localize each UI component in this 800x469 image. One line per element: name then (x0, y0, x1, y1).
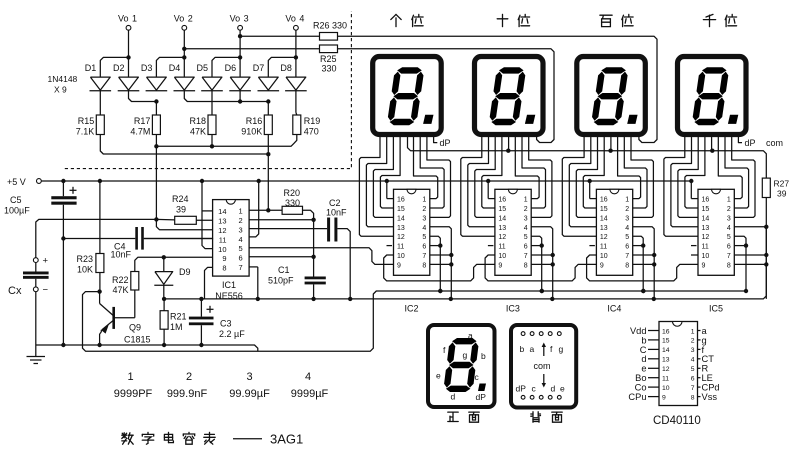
resistor R17 (152, 115, 160, 135)
node +5V IC3 junction (486, 179, 490, 183)
svg-text:−: − (43, 285, 49, 296)
svg-text:10: 10 (498, 253, 506, 260)
svg-text:47K: 47K (190, 127, 206, 137)
wire Q9 collector to counter reset rail (83, 291, 441, 351)
display DS4 com pin (711, 134, 713, 151)
svg-text:4: 4 (239, 235, 243, 244)
svg-text:2: 2 (239, 216, 243, 225)
svg-text:11: 11 (219, 235, 227, 244)
IC3 pin 11 stub (488, 245, 494, 247)
legend com arrows (543, 344, 545, 356)
wire Vo2 vertical (183, 30, 185, 57)
node R24 left junction (154, 217, 158, 221)
node ground rail junction (97, 343, 101, 347)
svg-text:8: 8 (691, 394, 695, 401)
wire com line (408, 134, 767, 178)
svg-text:1: 1 (127, 371, 133, 383)
svg-text:9999µF: 9999µF (291, 388, 329, 400)
svg-text:5: 5 (524, 234, 528, 241)
svg-text:D3: D3 (141, 63, 153, 73)
svg-text:IC5: IC5 (709, 304, 723, 314)
svg-text:910K: 910K (241, 127, 262, 137)
svg-text:+: + (43, 256, 49, 267)
diode D7 (258, 77, 278, 90)
svg-text:10nF: 10nF (111, 250, 132, 260)
node ground bus junction (449, 297, 453, 301)
svg-text:99.99µF: 99.99µF (229, 388, 270, 400)
diode D4 (174, 77, 194, 90)
wire IC2 Co to IC3 CPu (384, 255, 495, 281)
svg-text:R22: R22 (112, 275, 129, 285)
svg-text:13: 13 (702, 225, 710, 232)
svg-text:NE556: NE556 (215, 291, 243, 301)
svg-text:dP: dP (516, 384, 527, 394)
display DS4 segment pin wire (685, 134, 705, 208)
svg-text:dP: dP (440, 138, 451, 148)
wire Cx- to ground (35, 292, 37, 345)
svg-text:d: d (451, 392, 456, 402)
svg-text:4: 4 (625, 225, 629, 232)
svg-text:7: 7 (727, 253, 731, 260)
resistor R15 (96, 115, 104, 135)
svg-text:3AG1: 3AG1 (270, 432, 303, 447)
svg-text:d: d (641, 354, 646, 364)
node D9 top junction (162, 255, 166, 259)
capacitor C5 (62, 181, 64, 196)
svg-text:5: 5 (422, 234, 426, 241)
svg-text:14: 14 (218, 207, 226, 216)
svg-text:R21: R21 (170, 312, 187, 322)
node IC5 pin4 junction (764, 225, 768, 229)
svg-text:CPu: CPu (628, 392, 646, 402)
resistor R23 (99, 181, 101, 254)
wire C4 to IC1 pin11 (144, 238, 213, 240)
svg-text:8: 8 (524, 262, 528, 269)
wire IC1 pin6 line (249, 256, 314, 258)
display DS4 digit 8 (702, 67, 727, 73)
wire R17 bottom column (155, 135, 157, 220)
display DS2 segment pin wire (461, 134, 495, 236)
node IC5 pin7 junction (764, 253, 768, 257)
svg-text:15: 15 (397, 206, 405, 213)
node ground rail junction (61, 343, 65, 347)
ground symbol (35, 345, 37, 357)
svg-text:1N4148: 1N4148 (48, 74, 78, 84)
svg-text:330: 330 (285, 198, 300, 208)
svg-text:9: 9 (600, 262, 604, 269)
svg-text:2.2 µF: 2.2 µF (219, 329, 245, 339)
svg-text:Vo: Vo (174, 14, 185, 24)
label ge-wei (ones) (391, 14, 396, 19)
svg-text:47K: 47K (112, 285, 128, 295)
display DS4 segment pin wire (671, 134, 698, 227)
wire IC5 pins 4/7/8 column (734, 227, 766, 299)
display DS1 segment pin wire (373, 134, 393, 217)
svg-text:R23: R23 (76, 254, 93, 264)
svg-text:4: 4 (691, 357, 695, 364)
wire R17 to IC1 pin12 (156, 219, 212, 229)
node ground rail junction (162, 343, 166, 347)
resistor R26 (320, 33, 338, 41)
svg-text:D9: D9 (179, 267, 191, 277)
node pin2 column junction (311, 218, 315, 222)
svg-text:Q9: Q9 (129, 323, 141, 333)
wire IC5 pins 5/6 column (734, 236, 746, 291)
svg-text:10nF: 10nF (326, 208, 347, 218)
svg-text:15: 15 (498, 206, 506, 213)
svg-text:5: 5 (727, 234, 731, 241)
legend back-view bottom holes (521, 395, 525, 399)
wire signal ground bus (164, 200, 766, 299)
svg-text:9: 9 (662, 394, 666, 401)
wire IC1 pin2 line (249, 219, 314, 221)
node R18 bottom junction (210, 144, 214, 148)
svg-text:12: 12 (662, 366, 670, 373)
svg-text:12: 12 (600, 234, 608, 241)
display DS3 segment pin wire (583, 134, 604, 208)
svg-text:2: 2 (691, 338, 695, 345)
diode D1 (90, 77, 110, 90)
display DS4 segment pin wire (664, 134, 698, 236)
svg-text:g: g (559, 344, 564, 354)
node +5V IC4 junction (588, 179, 592, 183)
wire IC3 Co to IC4 CPu (485, 255, 596, 281)
dashed boundary of counting/display section (65, 11, 352, 169)
wire D5 cathode to R18 (211, 91, 213, 115)
svg-text:5: 5 (625, 234, 629, 241)
svg-text:6: 6 (727, 244, 731, 251)
svg-text:IC3: IC3 (506, 304, 520, 314)
svg-text:13: 13 (600, 225, 608, 232)
display DS4 body (678, 57, 747, 135)
display DS4 segment pin wire right (718, 134, 742, 198)
svg-text:13: 13 (662, 357, 670, 364)
node +5V rail junction (257, 179, 261, 183)
display DS3 com pin (610, 134, 612, 151)
resistor R24 (175, 216, 197, 224)
svg-text:4: 4 (422, 225, 426, 232)
svg-text:4: 4 (299, 14, 304, 24)
node IC5 pin8 junction (764, 262, 768, 266)
wire R24 to IC1 pin13 (196, 219, 212, 221)
svg-text:11: 11 (397, 244, 404, 251)
node IC3 pin8 junction (551, 262, 555, 266)
svg-text:3: 3 (422, 215, 426, 222)
node D7 link junction (266, 99, 270, 103)
svg-text:510pF: 510pF (268, 276, 294, 286)
wire +5V rail (41, 180, 692, 182)
node Vo1/D1/D2 junction (126, 55, 130, 59)
svg-text:4.7M: 4.7M (130, 127, 150, 137)
svg-text:6: 6 (691, 376, 695, 383)
counter IC2 CD40110 body (394, 189, 430, 275)
capacitor C3 (200, 299, 202, 317)
svg-text:2: 2 (625, 206, 629, 213)
display DS3 digit 8 (601, 67, 626, 73)
capacitor C1 (305, 277, 326, 280)
svg-text:14: 14 (498, 215, 506, 222)
svg-text:CD40110: CD40110 (653, 415, 701, 427)
svg-text:R17: R17 (134, 116, 151, 126)
svg-text:10: 10 (702, 253, 710, 260)
node IC3 pin7 junction (551, 253, 555, 257)
svg-text:a: a (530, 344, 535, 354)
svg-text:4: 4 (305, 371, 311, 383)
node reset rail junction (438, 289, 442, 293)
wire +5V to IC1 pin4 (249, 181, 259, 237)
svg-text:10: 10 (218, 245, 226, 254)
wire +5V to IC4 pin16 (589, 181, 591, 199)
node IC4 colA to reset rail (641, 289, 645, 293)
svg-text:11: 11 (498, 244, 505, 251)
display DS3 segment pin wire (562, 134, 596, 236)
svg-text:2: 2 (524, 206, 528, 213)
svg-text:X 9: X 9 (54, 85, 67, 95)
svg-text:C1: C1 (278, 265, 290, 275)
wire R26 to display3 dP (338, 36, 658, 142)
wire Cx+ to R24 node (36, 219, 157, 257)
wire D4 anode (183, 57, 185, 77)
display DS2 digit 8 (499, 67, 524, 73)
capacitor C2 (327, 218, 330, 242)
counter IC4 CD40110 body (596, 189, 632, 275)
svg-text:2: 2 (422, 206, 426, 213)
svg-text:12: 12 (702, 234, 710, 241)
wire ground rail (36, 345, 258, 351)
terminal Cx plus (33, 258, 38, 263)
svg-text:CPd: CPd (702, 383, 720, 393)
label front view (448, 411, 458, 413)
node +5V IC5 junction (689, 179, 693, 183)
svg-text:3: 3 (244, 14, 249, 24)
resistor R16 (264, 115, 272, 135)
svg-text:16: 16 (702, 197, 710, 204)
wire D7 anode to Vo4 node (268, 57, 296, 77)
node D3 link junction (154, 99, 158, 103)
node Vo4/D7/D8 junction (294, 55, 298, 59)
label back view (532, 412, 534, 416)
svg-text:16: 16 (498, 197, 506, 204)
svg-text:13: 13 (397, 225, 405, 232)
svg-text:7: 7 (691, 385, 695, 392)
svg-text:16: 16 (600, 197, 608, 204)
wire D8 anode (295, 57, 297, 77)
wire R17/R18/R19 bottom link (156, 135, 296, 147)
node IC4 pin6 junction (641, 243, 645, 247)
wire D7 link to R16 (267, 102, 269, 116)
svg-text:3: 3 (727, 215, 731, 222)
svg-text:R24: R24 (172, 194, 189, 204)
wire R20 to pin2/pin6 column (303, 210, 314, 276)
svg-text:C2: C2 (329, 198, 341, 208)
diode D5 (202, 77, 222, 90)
node com junction (710, 149, 714, 153)
svg-text:b: b (481, 351, 486, 361)
display DS3 segment pin wire right (631, 134, 653, 217)
display DS4 segment pin wire right (732, 134, 755, 217)
svg-text:2: 2 (188, 14, 193, 24)
resistor R21 (163, 299, 165, 311)
svg-text:com: com (766, 138, 783, 148)
display DS3 body (577, 57, 646, 135)
wire IC5 Co stub (691, 254, 698, 256)
wire IC1 pin7 to ground bus (257, 267, 259, 299)
legend back-view box (511, 325, 576, 408)
svg-text:1: 1 (625, 197, 629, 204)
wire D4 cathode to D6/D7 link (184, 91, 268, 102)
svg-text:R18: R18 (189, 116, 206, 126)
display DS2 segment pin wire (475, 134, 495, 217)
display DS1 segment pin wire (366, 134, 393, 227)
svg-text:D7: D7 (253, 63, 265, 73)
svg-text:7: 7 (422, 253, 426, 260)
node Vo3/D5/D6 junction (238, 55, 242, 59)
svg-text:1M: 1M (170, 322, 183, 332)
svg-text:Vo: Vo (285, 14, 296, 24)
display DS4 segment pin wire (678, 134, 698, 217)
display DS4 dP pin (738, 134, 742, 142)
node ground rail junction (199, 343, 203, 347)
svg-text:b: b (520, 344, 525, 354)
wire +5V to IC3 pin16 (487, 181, 489, 199)
wire IC2 pins 5/6 column (430, 236, 441, 291)
wire D8 cathode to R19 (295, 91, 297, 113)
counter IC3 CD40110 body (495, 189, 531, 275)
wire D3 anode to Vo2 node (156, 57, 184, 77)
svg-text:3: 3 (691, 347, 695, 354)
display DS1 segment pin wire (359, 134, 393, 236)
legend front-view digit (452, 338, 477, 344)
svg-text:1: 1 (524, 197, 528, 204)
svg-text:3: 3 (524, 215, 528, 222)
display DS3 segment pin wire (569, 134, 596, 227)
wire Vo3 vertical (239, 30, 241, 57)
svg-text:9: 9 (222, 254, 226, 263)
wire +5V to IC2 pin16 (386, 181, 388, 199)
svg-text:7: 7 (524, 253, 528, 260)
svg-text:8: 8 (222, 264, 226, 273)
svg-text:9: 9 (498, 262, 502, 269)
wire R16 column to NE556 pin1 (267, 135, 269, 211)
svg-text:e: e (560, 384, 565, 394)
svg-text:dP: dP (745, 138, 756, 148)
svg-text:C1815: C1815 (124, 335, 151, 345)
node ground bus junction (550, 297, 554, 301)
svg-text:D2: D2 (113, 63, 125, 73)
svg-text:330: 330 (322, 64, 337, 74)
svg-text:12: 12 (397, 234, 405, 241)
node Q9 collector junction (97, 289, 101, 293)
legend CD40110 body (659, 322, 698, 406)
wire IC1 pin3 through C2 (249, 228, 327, 230)
svg-text:R19: R19 (304, 116, 321, 126)
capacitor Cx (23, 272, 49, 275)
svg-text:1: 1 (727, 197, 731, 204)
svg-text:470: 470 (304, 127, 319, 137)
node ground bus junction (311, 297, 315, 301)
node IC3 colA to reset rail (540, 289, 544, 293)
svg-text:IC4: IC4 (607, 304, 621, 314)
wire D2 anode (128, 57, 130, 77)
svg-text:D6: D6 (225, 63, 237, 73)
node C5/C4 junction (61, 236, 65, 240)
svg-text:Cx: Cx (8, 285, 22, 297)
node IC1 pin1 junction (266, 208, 270, 212)
svg-text:15: 15 (600, 206, 608, 213)
svg-text:a: a (468, 331, 473, 341)
IC5 pin 11 stub (691, 245, 697, 247)
node +5V rail junction (200, 179, 204, 183)
svg-text:R25: R25 (320, 54, 337, 64)
wire R25 to display2 dP (338, 49, 555, 143)
node IC4 pin7 junction (652, 253, 656, 257)
resistor R25 (320, 45, 338, 53)
node ground bus junction (348, 297, 352, 301)
svg-text:999.9nF: 999.9nF (167, 388, 208, 400)
node Vo2/D3/D4 junction (182, 55, 186, 59)
wire R18 bottom stub (211, 135, 213, 147)
IC4 pin 11 stub (589, 245, 595, 247)
wire D1 cathode to R15 (99, 91, 101, 115)
wire IC2 pins 4/7/8 column (430, 227, 452, 299)
transistor Q9 (99, 292, 101, 304)
wire Vo3 to R26 (240, 35, 319, 37)
node IC2 pin8 junction (449, 262, 453, 266)
svg-text:13: 13 (218, 217, 226, 226)
wire IC4 pins 4/7/8 column (633, 227, 655, 299)
node R17 line junction (154, 144, 158, 148)
node IC2 pin6 junction (438, 243, 442, 247)
legend front-view display box (428, 325, 495, 407)
svg-text:C3: C3 (220, 319, 232, 329)
resistor R22 (131, 272, 139, 291)
svg-text:R20: R20 (284, 188, 301, 198)
display DS3 segment pin wire right (624, 134, 647, 208)
wire D6 anode (239, 57, 241, 77)
display DS1 segment pin wire right (420, 134, 444, 208)
wire D1 anode to Vo1 node (100, 57, 128, 77)
node +5V rail junction (61, 179, 65, 183)
svg-text:7.1K: 7.1K (76, 127, 95, 137)
node IC2 pin7 junction (449, 253, 453, 257)
svg-text:R16: R16 (246, 116, 263, 126)
svg-text:Vo: Vo (118, 14, 129, 24)
svg-text:+5 V: +5 V (7, 177, 26, 187)
svg-text:11: 11 (600, 244, 607, 251)
node IC4 pin8 junction (652, 262, 656, 266)
node pin6 column junction (311, 255, 315, 259)
svg-text:100µF: 100µF (4, 206, 30, 216)
svg-text:14: 14 (662, 347, 670, 354)
diode D2 (119, 77, 139, 90)
display DS2 com pin (508, 134, 510, 151)
node +5V IC2 junction (385, 179, 389, 183)
svg-text:IC1: IC1 (222, 280, 236, 290)
svg-text:14: 14 (702, 215, 710, 222)
svg-text:2: 2 (186, 371, 192, 383)
svg-text:14: 14 (397, 215, 405, 222)
node IC5 colA to reset rail (744, 289, 748, 293)
wire D6 cathode stub (239, 91, 241, 102)
IC2 pin 11 stub (387, 245, 393, 247)
node R16 bottom junction (266, 152, 270, 156)
svg-text:R15: R15 (78, 116, 95, 126)
node IC3 pin6 junction (540, 243, 544, 247)
wire base to R22 (115, 317, 135, 319)
node com junction (506, 149, 510, 153)
resistor R27 (762, 178, 770, 197)
svg-text:5: 5 (239, 244, 243, 253)
